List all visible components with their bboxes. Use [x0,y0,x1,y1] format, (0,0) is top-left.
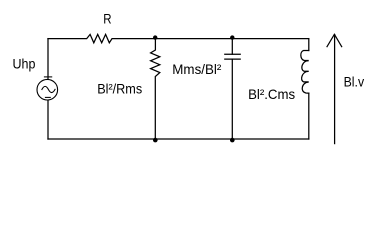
source sine wave [42,86,55,92]
svg-text:R: R [103,11,111,27]
velocity arrow shaft [334,35,336,144]
wire right branch bottom [308,93,310,139]
capacitor Mms/Bl2 top stub [231,39,233,55]
wire left branch upper [47,39,49,79]
capacitor plate top [225,53,240,55]
minus sign [45,96,50,98]
wire left branch lower [47,100,49,139]
source Uhp circle [37,79,58,100]
svg-text:Bl².Cms: Bl².Cms [248,86,295,102]
wire top horizontal with resistor R [48,34,309,42]
plus sign [44,76,51,78]
junction dot top left [153,35,157,39]
junction dot bottom left [153,138,158,143]
junction dot bottom right [230,138,235,143]
junction dot top right [230,35,234,39]
capacitor plate bottom [225,58,240,60]
wire right branch top [308,39,310,51]
svg-text:Uhp: Uhp [13,56,36,72]
svg-text:Mms/Bl²: Mms/Bl² [172,61,221,77]
wire bottom horizontal [48,138,309,140]
inductor Bl2.Cms coil [301,51,309,94]
svg-text:Bl.v: Bl.v [344,74,365,90]
capacitor bottom stub [231,59,233,139]
svg-text:Bl²/Rms: Bl²/Rms [97,81,142,97]
velocity arrow head [327,34,342,46]
resistor Bl2/Rms vertical [151,39,160,139]
